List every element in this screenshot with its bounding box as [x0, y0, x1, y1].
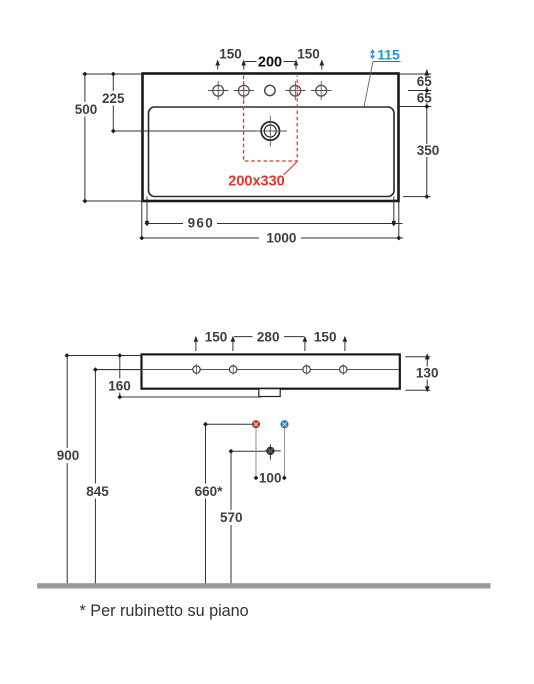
dim 1000 (bottom) — [139, 201, 403, 245]
dim 160 (front left) — [65, 353, 262, 399]
dim 150 right (top view) — [294, 47, 324, 70]
front hole 3 — [303, 364, 310, 375]
svg-text:115: 115 — [377, 46, 400, 62]
drain (top view) — [256, 116, 288, 147]
faucet hole 5 (cross) — [311, 81, 332, 100]
faucet hole center (plain) — [265, 85, 275, 95]
svg-text:500: 500 — [75, 102, 98, 117]
hot water symbol (red) — [252, 421, 259, 428]
svg-text:280: 280 — [257, 329, 280, 344]
svg-text:65: 65 — [417, 74, 433, 89]
faucet hole 1 (cross) — [208, 81, 229, 100]
dim 570 vertical — [217, 449, 266, 584]
blue dim 115 — [364, 46, 401, 107]
svg-text:200: 200 — [258, 54, 282, 70]
dim 845 vertical — [83, 367, 142, 583]
dim 900 vertical — [52, 356, 83, 584]
right dim chain 65/65/350 — [399, 69, 441, 199]
inner basin bowl (top view) — [149, 107, 395, 197]
dim 200 (top view) — [245, 54, 295, 70]
svg-text:65: 65 — [417, 90, 433, 105]
holes centerline (front) — [95, 369, 398, 371]
dim 150 left (top view) — [215, 47, 246, 70]
svg-text:200x330: 200x330 — [228, 174, 284, 190]
svg-text:* Per rubinetto su piano: * Per rubinetto su piano — [80, 602, 249, 620]
dim 660* vertical — [192, 422, 252, 584]
red leader line — [284, 162, 298, 176]
dim 130 (front right) — [405, 353, 440, 392]
drain tab (front) — [259, 389, 280, 397]
faucet hole 4 (cross) — [285, 81, 306, 100]
svg-text:150: 150 — [297, 47, 320, 62]
svg-text:150: 150 — [314, 329, 337, 344]
svg-text:960: 960 — [188, 216, 214, 231]
cold water symbol (blue) — [281, 421, 288, 428]
svg-text:225: 225 — [102, 91, 125, 106]
floor line — [37, 583, 491, 588]
faucet hole 2 (cross) — [234, 81, 255, 100]
dim 225 (left) — [100, 72, 256, 134]
dim 500 (left) — [72, 72, 143, 204]
svg-text:1000: 1000 — [266, 230, 296, 245]
front hole 1 — [193, 364, 200, 375]
svg-text:160: 160 — [108, 378, 131, 393]
dim 100 — [254, 471, 287, 486]
front hole 2 — [230, 364, 237, 375]
svg-text:660*: 660* — [195, 484, 224, 499]
front hole 4 — [340, 364, 347, 375]
svg-text:350: 350 — [417, 143, 440, 158]
svg-text:130: 130 — [416, 365, 439, 380]
front dim 280 — [234, 329, 304, 344]
red dashed cutout rectangle 200x330 — [244, 76, 298, 162]
drop line from cold symbol — [284, 429, 286, 478]
washbasin outer rim (top view) — [143, 74, 399, 202]
front dim 150 right — [303, 329, 348, 351]
waste outlet symbol — [265, 444, 281, 459]
svg-text:570: 570 — [220, 510, 243, 525]
dim 960 (bottom) — [145, 197, 403, 231]
svg-text:150: 150 — [219, 47, 242, 62]
svg-text:900: 900 — [57, 448, 80, 463]
svg-text:845: 845 — [86, 484, 109, 499]
washbasin front rectangle — [142, 354, 400, 388]
front dim 150 left — [194, 329, 236, 351]
drop line from hot symbol — [255, 429, 257, 478]
svg-text:150: 150 — [205, 329, 228, 344]
svg-text:100: 100 — [259, 471, 282, 486]
